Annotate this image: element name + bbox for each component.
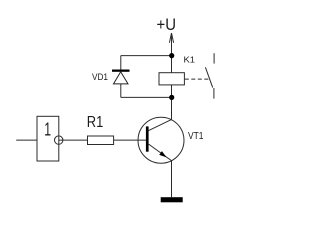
svg-text:+U: +U xyxy=(157,16,177,34)
svg-text:K1: K1 xyxy=(184,55,196,65)
svg-text:1: 1 xyxy=(44,120,51,140)
svg-text:VD1: VD1 xyxy=(92,72,108,82)
svg-text:VT1: VT1 xyxy=(188,131,204,142)
svg-text:R1: R1 xyxy=(87,114,104,131)
